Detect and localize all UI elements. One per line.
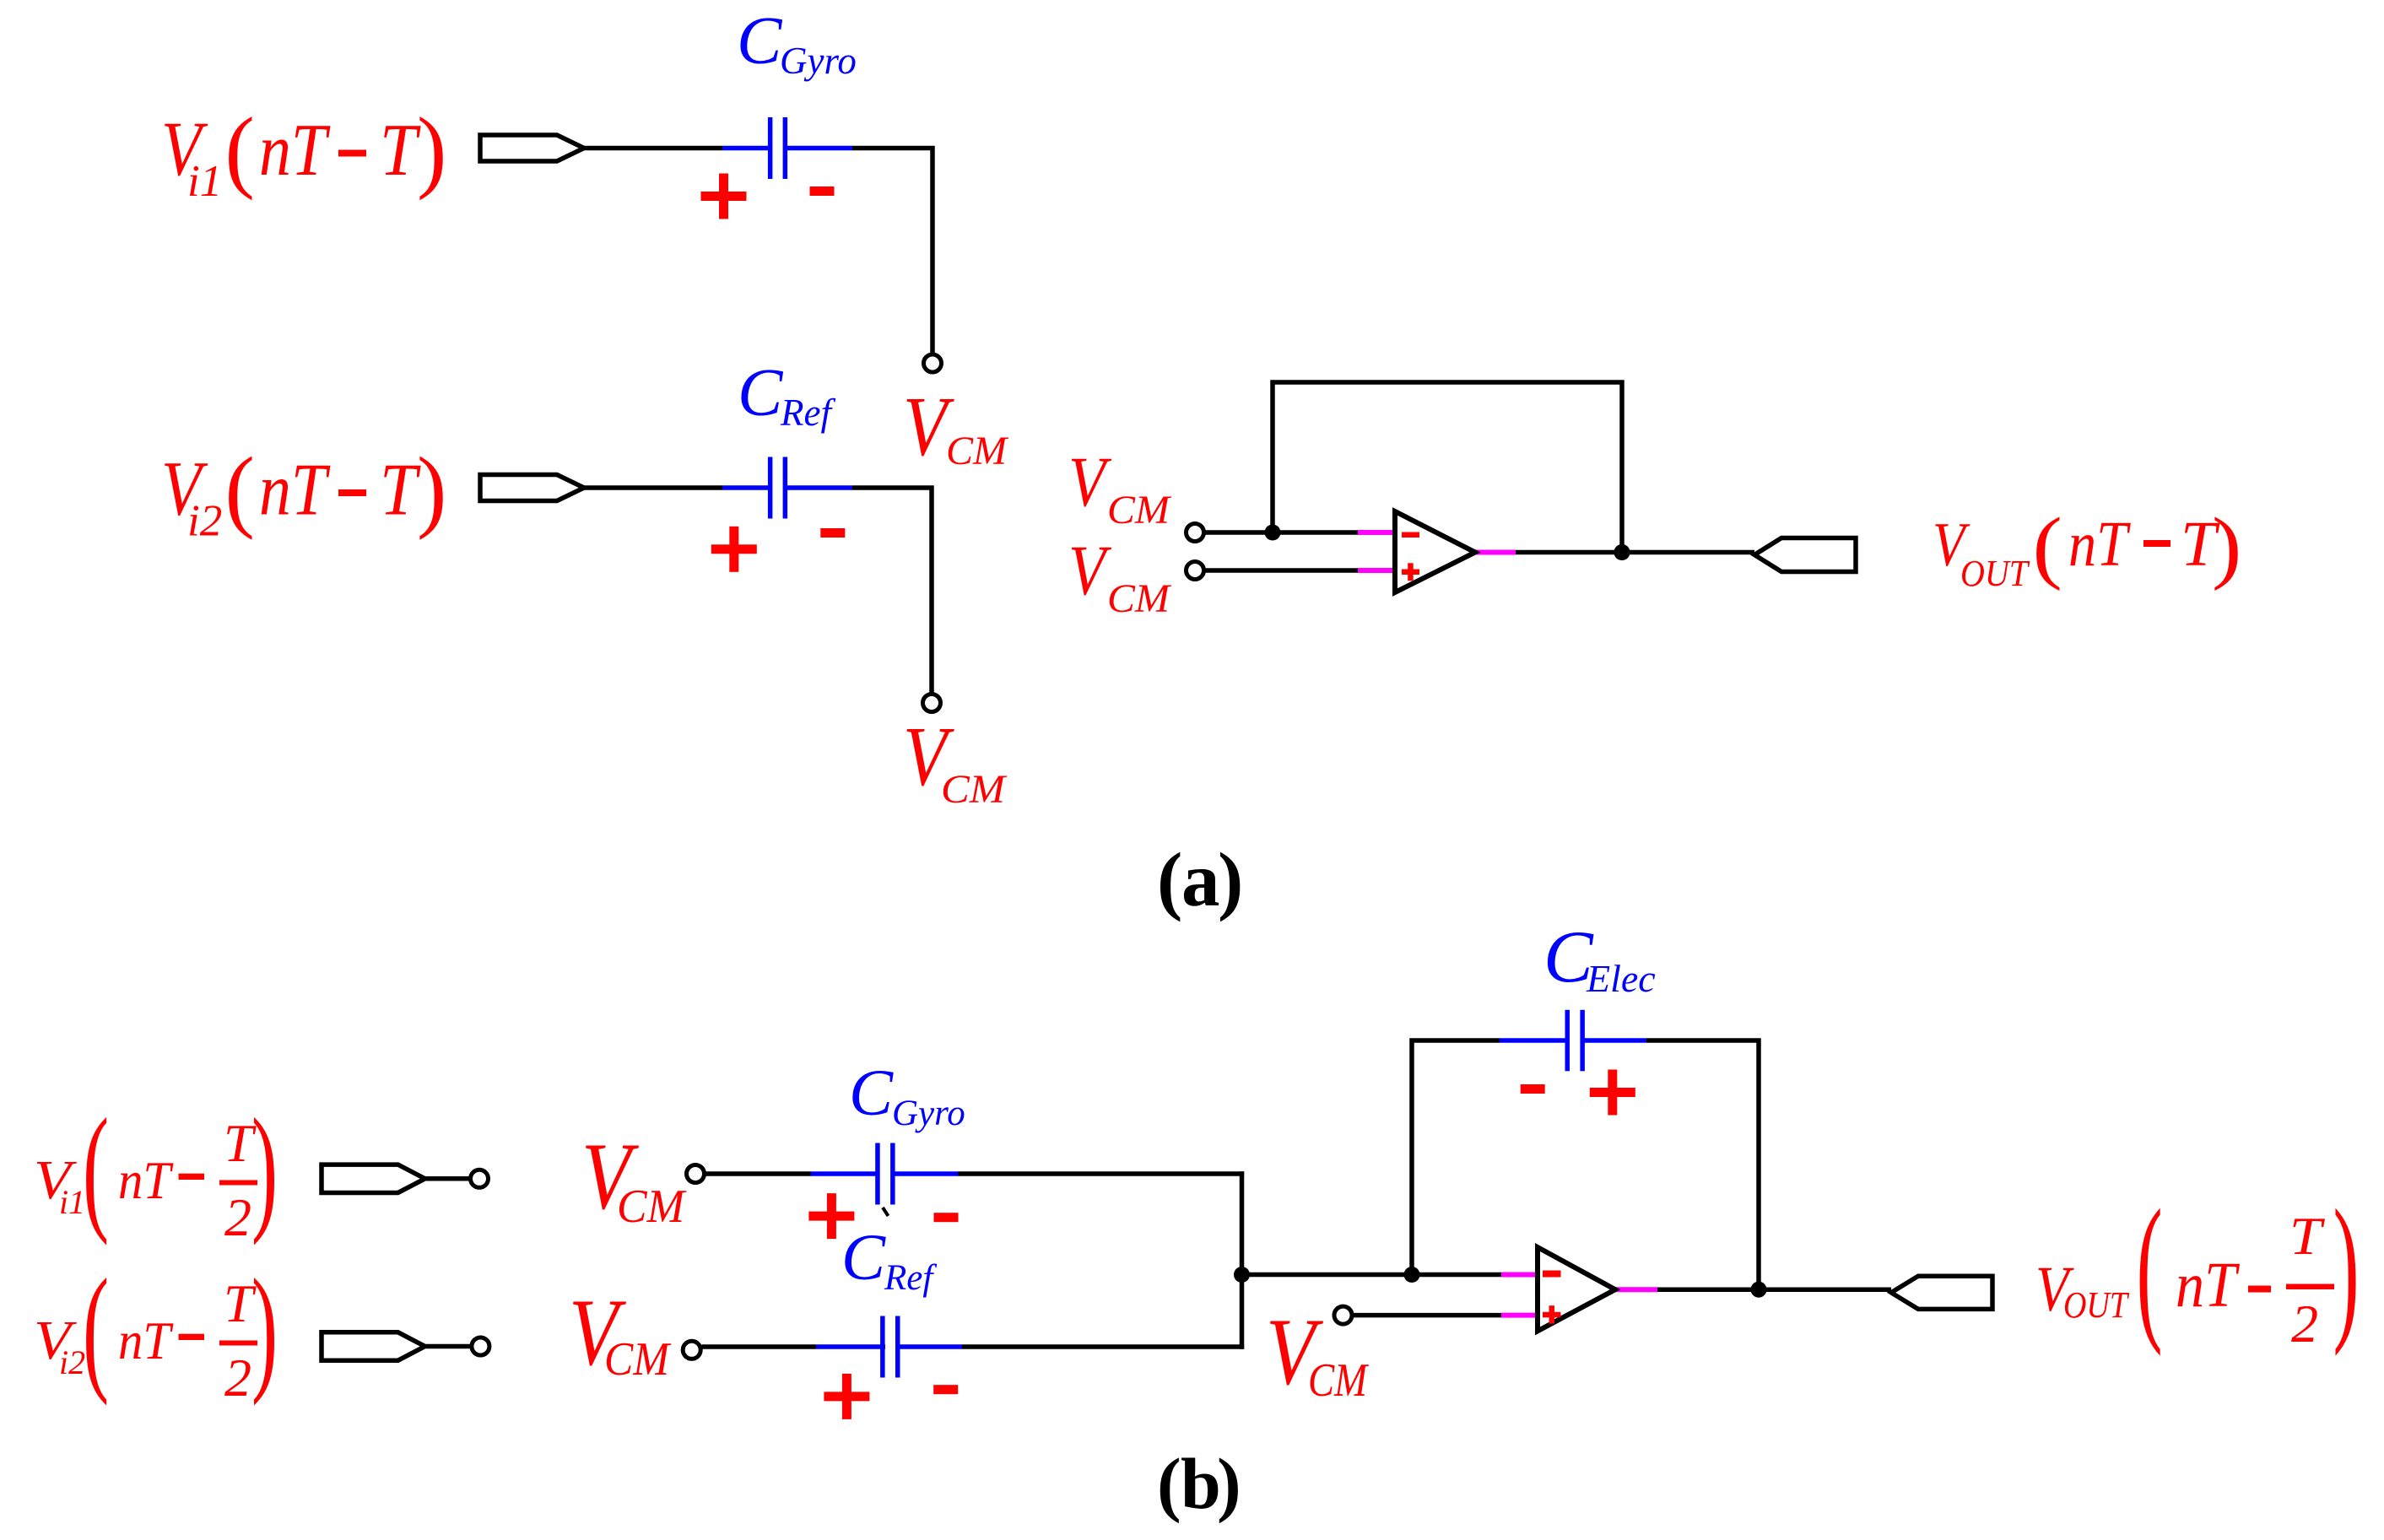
svg-text:CM: CM — [604, 1333, 672, 1386]
svg-text:Ref: Ref — [780, 392, 835, 434]
svg-text:nT: nT — [118, 1150, 174, 1210]
svg-text:(: ( — [1157, 1443, 1181, 1524]
svg-text:(: ( — [225, 100, 255, 201]
svg-text:nT: nT — [2176, 1250, 2240, 1321]
svg-text:(: ( — [1157, 837, 1182, 922]
svg-text:i1: i1 — [59, 1183, 85, 1221]
svg-text:): ) — [251, 1090, 278, 1246]
svg-text:CM: CM — [1308, 1354, 1370, 1407]
svg-text:C: C — [841, 1220, 886, 1294]
svg-text:): ) — [1218, 837, 1243, 922]
svg-text:C: C — [738, 356, 784, 430]
svg-text:2: 2 — [224, 1187, 251, 1247]
svg-text:V: V — [1068, 531, 1112, 610]
svg-text:T: T — [2289, 1206, 2326, 1266]
svg-text:(: ( — [2033, 501, 2062, 592]
svg-text:C: C — [737, 4, 783, 78]
svg-text:C: C — [849, 1056, 894, 1129]
svg-text:T: T — [380, 110, 421, 192]
svg-text:(: ( — [2137, 1176, 2163, 1357]
svg-text:): ) — [2212, 501, 2241, 592]
svg-text:Ref: Ref — [884, 1258, 937, 1298]
svg-text:2: 2 — [2291, 1294, 2318, 1354]
svg-text:a: a — [1181, 837, 1220, 922]
svg-text:V: V — [1068, 442, 1112, 521]
svg-text:CM: CM — [941, 767, 1008, 812]
svg-text:): ) — [417, 100, 446, 201]
svg-text:i1: i1 — [187, 157, 222, 206]
svg-text:i2: i2 — [187, 497, 222, 546]
svg-text:nT: nT — [118, 1310, 174, 1370]
svg-text:nT: nT — [259, 110, 331, 192]
svg-text:OUT: OUT — [1960, 553, 2030, 594]
svg-text:T: T — [380, 450, 421, 532]
svg-text:OUT: OUT — [2063, 1284, 2130, 1326]
svg-text:Gyro: Gyro — [892, 1094, 965, 1133]
svg-text:b: b — [1181, 1443, 1221, 1524]
svg-text:2: 2 — [224, 1348, 251, 1408]
svg-text:(: ( — [83, 1090, 109, 1246]
svg-text:nT: nT — [259, 450, 331, 532]
svg-text:): ) — [417, 439, 446, 540]
svg-text:nT: nT — [2068, 509, 2131, 580]
svg-text:): ) — [251, 1251, 278, 1407]
svg-text:CM: CM — [946, 429, 1009, 473]
svg-text:CM: CM — [617, 1181, 687, 1233]
svg-text:Gyro: Gyro — [780, 40, 857, 82]
svg-text:CM: CM — [1107, 488, 1172, 532]
svg-text:CM: CM — [1107, 576, 1172, 621]
svg-text:): ) — [2333, 1176, 2360, 1357]
svg-text:(: ( — [225, 439, 255, 540]
svg-text:i2: i2 — [59, 1343, 85, 1381]
svg-text:Elec: Elec — [1586, 957, 1656, 1000]
svg-text:): ) — [1217, 1443, 1241, 1524]
svg-text:(: ( — [83, 1251, 109, 1407]
